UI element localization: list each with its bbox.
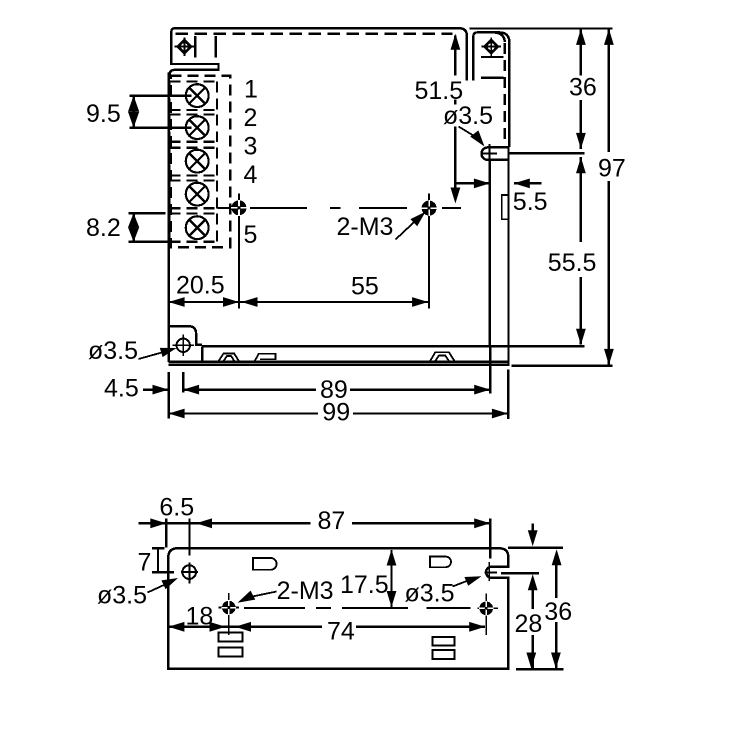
svg-text:51.5: 51.5 [415, 77, 464, 105]
slot top-right [430, 557, 451, 568]
svg-text:6.5: 6.5 [159, 494, 194, 522]
ext line notch level [501, 572, 539, 574]
terminal 4 dashed box [170, 180, 218, 208]
case top edge with folded corner [171, 28, 466, 80]
label 2-M3 bottom [238, 577, 334, 605]
svg-text:2-M3: 2-M3 [337, 213, 394, 241]
svg-text:55.5: 55.5 [548, 249, 597, 277]
dim 87 [196, 507, 497, 581]
svg-text:8.2: 8.2 [86, 214, 121, 242]
terminal 5 dashed box [170, 213, 218, 241]
slot top-left [253, 558, 277, 570]
terminal 2 dashed box [170, 114, 218, 141]
ext line case top right [508, 547, 563, 549]
bottom edge double line [169, 362, 509, 365]
right wall left edge [488, 161, 490, 346]
outside arrow above case top [528, 524, 538, 547]
svg-text:87: 87 [318, 507, 346, 535]
svg-text:74: 74 [327, 618, 355, 646]
hidden right edge dashed [504, 43, 506, 142]
dim 99 [169, 369, 509, 426]
dim 7 [138, 548, 175, 576]
M3 left vertical centerline [238, 194, 240, 309]
dim 55 [242, 273, 429, 307]
svg-text:5.5: 5.5 [513, 188, 548, 216]
dim 6.5 [139, 494, 311, 584]
terminal 3 dashed box [170, 148, 218, 176]
svg-text:55: 55 [351, 273, 379, 301]
wall slot [502, 195, 509, 219]
vent slots bottom-left pair [218, 633, 242, 642]
tick through right M3 [478, 607, 499, 609]
dim 28 [515, 574, 543, 668]
dim 20.5 [169, 272, 430, 307]
dim 55.5 [548, 157, 597, 345]
tab 2 [255, 354, 276, 362]
dim 51.5 [415, 34, 464, 204]
case left edge [167, 73, 169, 362]
vent slots bottom-right pair [432, 637, 454, 646]
svg-text:4: 4 [243, 161, 257, 189]
svg-text:97: 97 [598, 155, 626, 183]
dim 36 top-right [569, 29, 597, 149]
svg-text:5: 5 [243, 221, 257, 249]
svg-text:3: 3 [243, 132, 257, 160]
dim 8.2 [86, 213, 179, 242]
hidden top edge dashed [176, 32, 453, 34]
svg-text:99: 99 [322, 398, 350, 426]
svg-text:1: 1 [244, 75, 258, 103]
terminal block outer dashed box [171, 76, 231, 248]
svg-text:7: 7 [138, 549, 152, 577]
bottom-left flange [169, 326, 203, 345]
svg-text:9.5: 9.5 [86, 100, 121, 128]
label 2-M3 top [337, 212, 426, 241]
centerline bottom view dash-dot [244, 607, 471, 609]
terminal 3 [186, 150, 209, 173]
svg-text:ø3.5: ø3.5 [97, 582, 147, 610]
M3 screw bottom-left [221, 600, 236, 615]
terminal 1 dashed box [170, 81, 218, 110]
dim 5.5 [456, 179, 548, 217]
dim 36 bottom [544, 549, 572, 668]
bracket rounded slot end [481, 147, 509, 160]
ext line bottom right for 97 [512, 365, 613, 367]
tab 3 [430, 352, 454, 361]
dim 97 [598, 29, 626, 365]
svg-text:17.5: 17.5 [340, 571, 389, 599]
label o3.5 bottom-left [97, 578, 178, 610]
left flange screw [175, 37, 195, 55]
dim 18 [168, 603, 322, 632]
svg-text:36: 36 [569, 74, 597, 102]
label o3.5 bottom-right [405, 576, 482, 607]
M3 right vertical centerline [428, 194, 430, 309]
svg-text:ø3.5: ø3.5 [88, 337, 138, 365]
ext line top right [470, 27, 613, 29]
svg-text:2: 2 [243, 104, 257, 132]
M3 vertical centerlines bottom view [229, 593, 486, 635]
svg-text:28: 28 [515, 610, 543, 638]
svg-text:4.5: 4.5 [104, 375, 139, 403]
svg-text:18: 18 [186, 603, 214, 631]
svg-text:ø3.5: ø3.5 [405, 580, 455, 608]
left flange outline [170, 63, 219, 77]
flange bend ticks [195, 36, 216, 58]
bracket hole centerline cross [481, 144, 497, 164]
tick through left M3 [219, 607, 240, 609]
hole o3.5 bottom-left view [181, 565, 198, 579]
top-right flange inner corner [494, 32, 505, 42]
case outline bottom view [168, 548, 508, 668]
tab 1 [218, 354, 239, 362]
ext line at bracket hole level [509, 152, 585, 154]
flange bend line lower [481, 76, 504, 78]
right wall right edge [507, 147, 509, 366]
svg-text:20.5: 20.5 [176, 272, 225, 300]
M3 screw right [421, 200, 437, 216]
svg-text:36: 36 [544, 598, 572, 626]
terminal 1 [186, 84, 209, 107]
svg-text:2-M3: 2-M3 [277, 577, 334, 605]
top-right screw [481, 37, 501, 55]
ext line case bottom right [516, 668, 564, 670]
M3 screw bottom-right [479, 601, 494, 616]
terminal 4 [186, 183, 209, 206]
step at inner bottom [201, 346, 203, 362]
dim 74 [235, 618, 485, 646]
dim 89 [183, 346, 490, 404]
hole o3.5 bottom-left [172, 334, 194, 356]
label o3.5 top-right [443, 102, 493, 147]
dim 9.5 [86, 96, 192, 128]
M3 centerline dash-dot [218, 207, 462, 209]
svg-text:ø3.5: ø3.5 [443, 102, 493, 130]
label o3.5 left [88, 337, 177, 365]
terminal 5 [186, 216, 209, 239]
M3 screw left [231, 200, 247, 216]
inner bottom line [202, 345, 584, 347]
dim 17.5 [340, 550, 396, 608]
top-right flange left edge [473, 32, 509, 147]
terminal 2 [186, 116, 209, 139]
flange bend line upper [481, 56, 504, 58]
dim 4.5 [104, 372, 183, 419]
